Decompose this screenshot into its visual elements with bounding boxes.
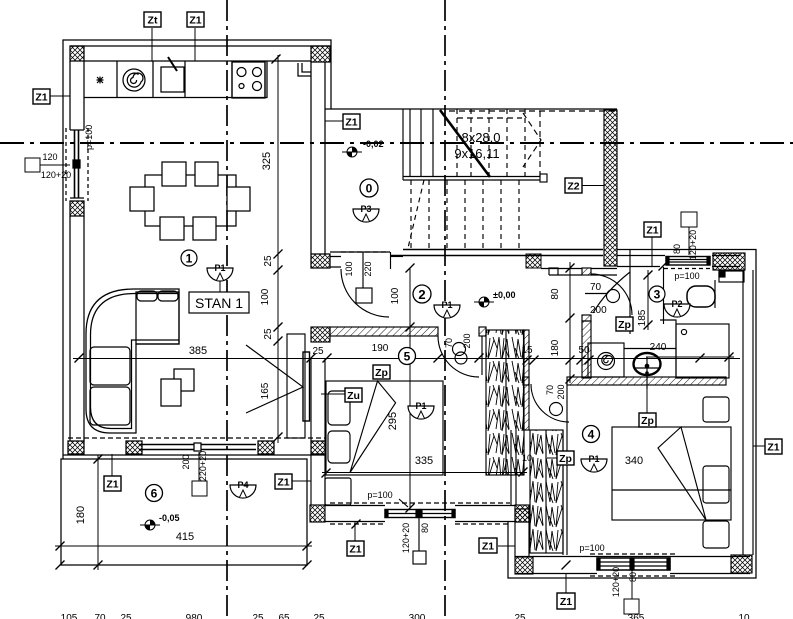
svg-text:-0,05: -0,05 <box>159 513 180 523</box>
svg-text:240: 240 <box>650 342 667 353</box>
stem Z1 top <box>194 28 196 61</box>
svg-text:Z1: Z1 <box>767 442 779 454</box>
sofa inner line <box>91 294 180 429</box>
svg-text:165: 165 <box>260 382 271 399</box>
WC window <box>666 257 710 266</box>
door living-hall leaf <box>390 252 392 269</box>
svg-text:Z1: Z1 <box>35 92 47 104</box>
svg-text:10: 10 <box>738 613 750 619</box>
svg-text:365: 365 <box>628 613 645 619</box>
Z1 box room5wall <box>347 541 364 556</box>
stair dashed diagonal top right <box>523 113 541 167</box>
leader Zp wardrobe2 <box>547 457 557 459</box>
svg-text:70: 70 <box>545 385 555 395</box>
stair dashed risers above cut <box>457 109 525 177</box>
svg-text:3: 3 <box>654 288 661 302</box>
bath north wall <box>541 269 617 276</box>
room5 window <box>385 510 455 518</box>
window sym box WC + stem <box>681 212 697 227</box>
svg-text:Z1: Z1 <box>345 117 357 129</box>
svg-text:Zp: Zp <box>559 453 572 465</box>
svg-text:P3: P3 <box>360 204 371 214</box>
stem Z1 room5wall <box>354 522 356 541</box>
svg-text:P2: P2 <box>671 299 682 309</box>
svg-text:325: 325 <box>261 152 273 170</box>
stair south wall band <box>390 250 603 256</box>
washbasin <box>634 353 661 375</box>
svg-text:9x16,11: 9x16,11 <box>454 146 499 161</box>
svg-text:120+20: 120+20 <box>41 170 71 180</box>
svg-text:1: 1 <box>186 252 193 266</box>
svg-text:180: 180 <box>550 339 561 356</box>
P2 disc wc <box>664 299 690 317</box>
stair lower flight dashed risers <box>411 180 519 248</box>
room5 pillow 2 <box>328 431 350 463</box>
svg-text:100: 100 <box>390 287 401 304</box>
room circle 3 <box>649 286 665 302</box>
room5 bed <box>326 381 443 475</box>
room5 south wall piers <box>310 505 325 522</box>
chair right <box>227 187 250 211</box>
room4 window dashes <box>590 554 676 576</box>
chair bottom-right <box>193 217 216 240</box>
partition living/room5 <box>287 334 305 438</box>
svg-text:Z1: Z1 <box>189 15 201 27</box>
chair top-right <box>195 162 218 186</box>
svg-text:120: 120 <box>42 152 57 162</box>
Z1 box right <box>765 439 782 454</box>
room4 door arc <box>531 384 569 422</box>
left wall upper segment <box>69 61 71 130</box>
room5 closet rect <box>325 478 351 505</box>
room4 south wall <box>515 557 750 574</box>
top-right corner pier <box>311 46 330 62</box>
Z1 box terrace2 <box>275 474 292 489</box>
room circle 6 <box>146 485 163 502</box>
leader Z1 left <box>49 95 70 97</box>
entry porch line <box>629 249 631 334</box>
room5 south wall <box>325 506 515 522</box>
jamb bracket <box>549 268 558 275</box>
stair dashed right edge <box>539 111 541 180</box>
centerline vertical x445 <box>444 0 446 619</box>
wall right of wardrobe2 <box>563 384 567 555</box>
room4 south wall piers <box>515 557 533 574</box>
stem Z1 room4 <box>565 574 567 593</box>
svg-text:105: 105 <box>61 613 78 619</box>
Z1 box left <box>33 89 50 104</box>
WC west wall <box>663 267 665 324</box>
svg-text:200: 200 <box>556 384 566 399</box>
window sym box terrace + stem <box>192 481 207 496</box>
stair landing end cap <box>540 174 547 182</box>
stair cut diagonal <box>440 110 490 177</box>
living right wall <box>310 62 312 254</box>
svg-text:5: 5 <box>404 350 411 364</box>
level marker +-0.00 <box>474 297 494 307</box>
svg-text:P1: P1 <box>214 263 225 273</box>
tick marks <box>272 55 281 64</box>
shower tray <box>676 324 729 378</box>
washing machine <box>588 343 624 377</box>
door living-hall arc <box>341 269 389 317</box>
Z1 box wc <box>644 222 661 237</box>
outer plaster line bottom of living room <box>63 454 325 456</box>
svg-text:100: 100 <box>344 261 354 276</box>
svg-text:80: 80 <box>628 572 638 582</box>
cooktop <box>232 62 265 98</box>
sliding terrace door <box>139 444 256 446</box>
room5 pillow 1 <box>328 391 350 425</box>
room5 window annotation <box>413 551 426 564</box>
svg-text:25: 25 <box>313 613 325 619</box>
svg-text:385: 385 <box>189 345 207 357</box>
svg-text:15: 15 <box>521 345 533 356</box>
Zt box top <box>144 12 161 27</box>
pier living right wall bottom <box>311 254 330 268</box>
room4 blanket <box>658 427 706 520</box>
outer plaster line right unit <box>508 250 756 579</box>
door living-hall annotation square <box>356 288 372 303</box>
left wall lower segment <box>69 216 71 441</box>
svg-text:80: 80 <box>550 288 561 300</box>
WC niche <box>719 271 744 282</box>
svg-text:P1: P1 <box>441 300 452 310</box>
entry door arc right unit <box>593 272 630 313</box>
wall right of wardrobe1 <box>524 330 530 430</box>
stem Zp room4 <box>646 385 648 413</box>
svg-text:200: 200 <box>181 454 191 469</box>
svg-text:80: 80 <box>672 244 682 254</box>
window sill dashes <box>65 128 67 201</box>
room4 closet rect 2 <box>703 466 729 503</box>
dim line 185 WC <box>647 270 649 330</box>
Zp box bath <box>616 317 633 331</box>
svg-text:-0,02: -0,02 <box>363 139 384 149</box>
svg-text:200: 200 <box>590 305 607 316</box>
svg-text:Z1: Z1 <box>646 225 658 237</box>
svg-text:Z1: Z1 <box>560 596 572 608</box>
wardrobe 1 <box>486 330 524 475</box>
svg-text:6: 6 <box>151 487 158 501</box>
P1 disc room4 <box>581 454 607 472</box>
Zp box wardrobe1 <box>373 365 390 379</box>
room5 blanket <box>350 381 396 473</box>
svg-text:340: 340 <box>625 455 643 467</box>
P4 disc terrace <box>230 480 256 498</box>
bath door arc <box>591 274 632 315</box>
Z2 box <box>565 178 582 193</box>
svg-text:295: 295 <box>387 412 399 430</box>
svg-text:70: 70 <box>590 282 602 293</box>
room circle 2 <box>413 285 431 303</box>
svg-text:Zp: Zp <box>641 415 654 427</box>
leader Z2 <box>582 185 604 187</box>
svg-text:Zt: Zt <box>148 15 158 27</box>
stem Z1 wc <box>651 237 653 266</box>
sofa outer <box>86 289 179 433</box>
leader Zu <box>321 393 345 395</box>
svg-text:100: 100 <box>260 288 271 305</box>
sink symbol <box>97 77 104 84</box>
svg-text:185: 185 <box>637 309 648 326</box>
hall top wall right segment <box>390 256 403 258</box>
window sym box room4 + stem <box>624 599 639 614</box>
door hall-room5 arc <box>438 336 479 377</box>
svg-text:220+20: 220+20 <box>198 451 208 481</box>
sofa seat cushion 1 <box>90 347 130 385</box>
stair landing lines <box>403 177 540 181</box>
svg-text:120+20: 120+20 <box>611 567 621 597</box>
door hall-room5 annotation circle <box>453 343 466 356</box>
stair upper flight risers <box>403 109 433 180</box>
pier stair south wall <box>526 254 541 268</box>
centerline vertical x227 <box>226 0 228 619</box>
P1 disc hall <box>434 300 460 318</box>
pier below window <box>70 201 84 216</box>
oven square <box>161 67 184 92</box>
arrow lines <box>246 345 303 413</box>
top-left corner pier <box>70 46 84 61</box>
svg-text:25: 25 <box>514 613 526 619</box>
svg-text:300: 300 <box>409 613 426 619</box>
stem Zt top <box>151 28 153 61</box>
right wall <box>743 270 753 555</box>
hall south wall stub <box>479 327 486 336</box>
window sym box left + leader <box>25 158 40 172</box>
terrace dim line x98 <box>97 455 99 570</box>
wall WC/shower divider <box>660 320 676 378</box>
window left wall <box>70 129 84 131</box>
WC window wall band <box>617 256 740 267</box>
Z1 box terrace <box>104 476 121 491</box>
svg-text:70: 70 <box>444 338 454 348</box>
svg-text:2: 2 <box>418 287 425 302</box>
Z1 box room4 <box>557 593 575 609</box>
wall living/room5 mid <box>311 358 325 505</box>
Z1 box top <box>187 12 204 27</box>
P1 disc stan <box>207 263 233 281</box>
svg-text:25: 25 <box>263 328 274 340</box>
terrace outline <box>61 459 307 565</box>
svg-text:335: 335 <box>415 455 433 467</box>
top-right corner pier <box>713 253 745 270</box>
svg-text:10: 10 <box>522 453 532 463</box>
P3 disc <box>353 204 379 222</box>
room circle 5 <box>399 348 416 365</box>
stair dashed outline top <box>449 111 617 118</box>
svg-text:220: 220 <box>363 261 373 276</box>
svg-text:Z2: Z2 <box>567 181 579 193</box>
bottom-right corner pier <box>731 555 752 573</box>
level marker -0.02 <box>342 147 362 157</box>
chair left <box>130 187 154 211</box>
Zp box room4 <box>639 413 656 427</box>
dashed lintel line living bottom <box>68 437 325 439</box>
dashed lintel above hall door <box>341 251 390 253</box>
stem Zp bath <box>623 320 625 329</box>
svg-text:25: 25 <box>312 346 324 357</box>
svg-text:415: 415 <box>176 531 194 543</box>
room circle 1 <box>181 250 197 266</box>
room4 north wall jambs <box>523 377 529 385</box>
living bottom pier 2 <box>126 441 142 454</box>
svg-text:STAN 1: STAN 1 <box>195 295 243 311</box>
room circle 0 <box>360 179 378 197</box>
svg-text:4: 4 <box>588 428 595 442</box>
coffee table 2 <box>161 379 181 406</box>
svg-text:200: 200 <box>462 333 472 348</box>
svg-text:80: 80 <box>420 523 430 533</box>
leader Z1 terrace2 <box>292 480 311 482</box>
leader Z1 right <box>753 445 765 447</box>
svg-text:8x28,0: 8x28,0 <box>461 130 500 145</box>
svg-text:120+20: 120+20 <box>688 230 698 260</box>
svg-text:Z1: Z1 <box>482 541 494 553</box>
svg-text:65: 65 <box>278 613 290 619</box>
svg-text:25: 25 <box>263 255 274 267</box>
vertical dim line x410 <box>409 268 411 509</box>
living bottom-left pier <box>68 441 84 454</box>
wall between room5 and porch <box>515 505 529 557</box>
stair lower dashed diagonal <box>408 180 424 248</box>
leader Z1 stair <box>325 120 343 122</box>
hall south wall hatched band <box>330 327 438 336</box>
room5 east wall lower <box>511 430 516 505</box>
sofa seat cushion 2 <box>90 387 130 425</box>
dining table <box>145 175 236 226</box>
room5 window dashes <box>330 503 510 524</box>
svg-text:Zp: Zp <box>375 367 388 379</box>
svg-text:±0,00: ±0,00 <box>493 290 515 300</box>
Z1 box stair <box>343 114 360 129</box>
level marker -0.05 <box>140 520 160 530</box>
leader Z1 porch <box>498 545 515 547</box>
living bottom pier 3 <box>258 441 274 454</box>
Z1 box porch <box>479 538 497 553</box>
outer plaster line left unit <box>63 40 331 459</box>
pier on that wall <box>515 509 529 522</box>
bath door jamb blocks <box>582 268 591 275</box>
Zu box <box>345 388 362 402</box>
svg-text:120+20: 120+20 <box>401 523 411 553</box>
svg-text:P1: P1 <box>588 454 599 464</box>
svg-text:p=100: p=100 <box>579 543 604 553</box>
svg-text:p=100: p=100 <box>674 271 699 281</box>
chair bottom-left <box>160 217 184 240</box>
hall south wall pier <box>311 327 330 342</box>
P1 disc room5 <box>408 401 434 419</box>
horizontal dim line y546 <box>55 545 312 547</box>
centerline horizontal y143 <box>0 142 793 144</box>
svg-text:190: 190 <box>372 343 389 354</box>
horizontal dim line y474 <box>322 472 527 474</box>
vertical dim line x278 <box>277 55 279 443</box>
svg-text:Z1: Z1 <box>349 544 361 556</box>
svg-text:Zp: Zp <box>618 319 631 331</box>
Z2 hatched wall column <box>604 110 617 266</box>
room4 north wall hatched <box>567 377 726 385</box>
room4 closet rect 1 <box>703 397 729 422</box>
kitchen niche <box>298 63 311 76</box>
staircase block top line <box>325 108 617 110</box>
horizontal dim line y358 <box>73 358 740 360</box>
svg-text:p=100: p=100 <box>367 490 392 500</box>
room4 door annotation circle <box>550 403 563 416</box>
coffee table 1 <box>174 369 194 391</box>
svg-text:p=100: p=100 <box>84 125 94 150</box>
bath door annotation <box>585 293 607 295</box>
wardrobe 2 <box>530 430 563 553</box>
top wall band <box>70 45 330 47</box>
svg-text:Z1: Z1 <box>277 477 289 489</box>
svg-text:25: 25 <box>252 613 264 619</box>
room4 closet rect 3 <box>703 521 729 548</box>
stove spiral <box>123 69 145 91</box>
sofa chaise cushion <box>136 292 179 344</box>
svg-text:P4: P4 <box>237 480 248 490</box>
room4 bed <box>612 427 731 520</box>
svg-text:980: 980 <box>186 613 203 619</box>
hall top wall stub left <box>330 252 390 267</box>
bath west wall hatched <box>582 321 591 378</box>
chair top-left <box>162 162 186 186</box>
svg-text:0: 0 <box>366 182 373 196</box>
room4 windows <box>597 558 632 570</box>
kitchen counter <box>84 61 267 98</box>
living bottom pier 4 <box>311 441 325 454</box>
column in partition <box>303 352 310 421</box>
svg-text:Zu: Zu <box>347 390 360 402</box>
svg-text:180: 180 <box>75 506 87 524</box>
svg-text:50: 50 <box>578 345 590 356</box>
dim line 240 bath <box>646 356 734 358</box>
svg-text:P1: P1 <box>415 401 426 411</box>
svg-text:70: 70 <box>94 613 106 619</box>
vertical dim line x570 <box>569 262 571 383</box>
Zp box wardrobe2 <box>557 451 574 465</box>
svg-text:25: 25 <box>120 613 132 619</box>
sofa back cushions <box>137 291 157 301</box>
stem Z1 terrace <box>111 454 113 476</box>
svg-text:Z1: Z1 <box>106 479 118 491</box>
room circle 4 <box>583 426 600 443</box>
toilet <box>687 286 715 307</box>
STAN 1 box <box>189 292 249 313</box>
